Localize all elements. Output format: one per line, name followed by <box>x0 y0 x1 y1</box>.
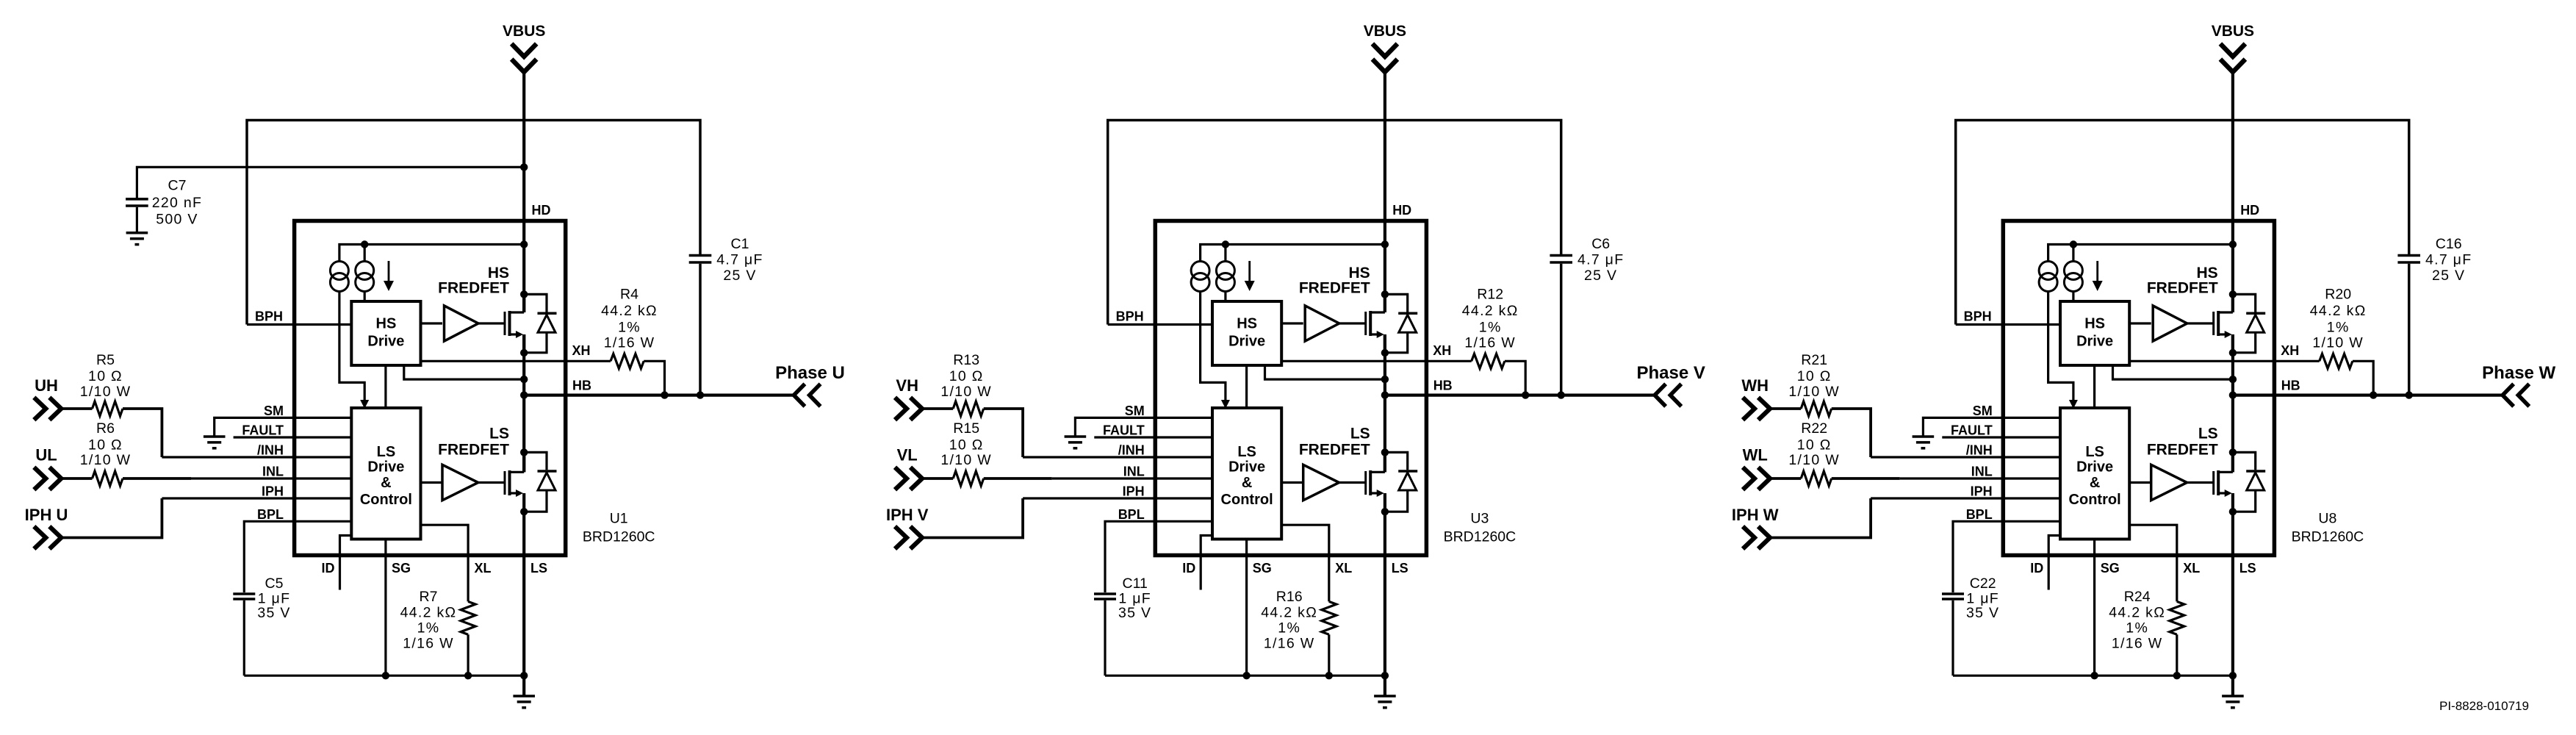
wire BPH net (phase W) <box>1956 323 2060 326</box>
svg-text:FREDFET: FREDFET <box>2147 280 2218 297</box>
block LS Drive &amp; Control (phase U) <box>351 408 420 539</box>
svg-text:ID: ID <box>2030 561 2043 576</box>
wire R22 to INL pin (phase W) <box>1832 477 1900 480</box>
node junction R20 to HB (phase W) <box>2370 391 2377 398</box>
node junction HS FREDFET source (phase U) <box>520 349 528 356</box>
wire LS Drive output to buffer (phase V) <box>1281 481 1303 484</box>
IC U8 BRD1260C outline (phase W) <box>2003 221 2274 556</box>
wire ID stub (phase U) <box>340 536 352 590</box>
ground on SM pin (phase W) <box>1913 435 1935 438</box>
wire SG pin to bottom rail (phase W) <box>2093 539 2095 676</box>
wire XL pin from LS Drive (phase W) <box>2129 525 2177 601</box>
svg-text:SM: SM <box>1973 404 1993 418</box>
node junction XL (phase V) <box>1325 672 1333 679</box>
node junction LS ground (phase W) <box>2229 672 2237 679</box>
svg-text:IPH W: IPH W <box>1732 506 1779 524</box>
svg-text:R7: R7 <box>420 589 438 605</box>
node junction R12 to HB (phase V) <box>1522 391 1529 398</box>
svg-text:LS: LS <box>2239 561 2256 576</box>
block HS Drive (phase W) <box>2060 301 2129 365</box>
node junction HD rail (phase U) <box>520 240 528 248</box>
wire C7 to ground (phase U) <box>136 207 138 232</box>
connector IPH U double chevron <box>34 526 46 549</box>
svg-text:VBUS: VBUS <box>2212 23 2254 40</box>
wire LS Drive output to buffer (phase W) <box>2129 481 2151 484</box>
svg-text:XH: XH <box>572 343 591 358</box>
wire current source 1 / BPH leg down to LS Drive supply (phase W) <box>2048 292 2073 401</box>
svg-text:10 Ω: 10 Ω <box>949 437 984 453</box>
wire ID stub (phase V) <box>1201 536 1212 590</box>
svg-text:1/16 W: 1/16 W <box>1264 636 1315 652</box>
buffer amplifier LS gate driver (phase W) <box>2151 465 2187 500</box>
capacitor C16 (phase W) <box>2397 254 2420 257</box>
wire HS Drive output to buffer (phase V) <box>1281 322 1303 324</box>
svg-text:UL: UL <box>35 446 57 465</box>
wire WH to resistor R21 (phase W) <box>1770 407 1801 410</box>
connector IPH W double chevron <box>1743 526 1755 549</box>
wire switch node rail (phase U) <box>522 334 525 472</box>
svg-text:10 Ω: 10 Ω <box>1797 437 1832 453</box>
wire buffer to LS FREDFET gate (phase V) <box>1339 481 1366 484</box>
connector Phase V double chevron <box>1655 384 1666 406</box>
svg-text:R12: R12 <box>1477 287 1503 303</box>
wire buffer to LS FREDFET gate (phase W) <box>2187 481 2214 484</box>
node junction LS FREDFET source (phase W) <box>2229 508 2237 515</box>
wire /INH net from R13 (phase V) <box>1023 456 1212 458</box>
current source 2 (HS drive supply) (phase W) <box>2064 262 2082 280</box>
resistor R13 (phase V) <box>953 401 984 416</box>
svg-text:BPH: BPH <box>255 309 283 324</box>
current source 1 (bootstrap charge) (phase U) <box>330 262 348 280</box>
block HS Drive (phase U) <box>351 301 420 365</box>
wire R6 to INL pin (phase U) <box>123 477 191 480</box>
wire top bootstrap loop: left leg to BPH, top rail, right leg to C16 (phase W) <box>1956 121 2409 325</box>
svg-text:25 V: 25 V <box>1584 268 1617 284</box>
svg-text:R15: R15 <box>953 420 979 437</box>
svg-text:C6: C6 <box>1591 236 1610 252</box>
svg-text:1/10 W: 1/10 W <box>2312 335 2364 351</box>
node junction LS ground (phase U) <box>520 672 528 679</box>
wire R5 to /INH pin (phase U) <box>123 409 162 457</box>
svg-text:HS: HS <box>2084 316 2105 332</box>
wire XH net from HS Drive to resistor R4 (phase U) <box>421 360 611 362</box>
block HS Drive (phase V) <box>1212 301 1281 365</box>
svg-text:XH: XH <box>2281 343 2299 358</box>
svg-text:VL: VL <box>897 446 918 465</box>
wire IPH U to IPH pin (phase U) <box>61 498 162 538</box>
resistor R5 (phase U) <box>93 401 123 416</box>
connector WL double chevron <box>1743 467 1755 490</box>
svg-text:Drive: Drive <box>2076 334 2113 350</box>
resistor R12 (phase V) <box>1472 354 1505 368</box>
diode HS FREDFET body diode (phase U) <box>524 294 547 312</box>
svg-text:35 V: 35 V <box>257 605 290 621</box>
svg-text:25 V: 25 V <box>2432 268 2465 284</box>
wire XL pin from LS Drive (phase U) <box>421 525 469 601</box>
svg-text:UH: UH <box>35 376 58 395</box>
svg-text:LS: LS <box>2198 426 2218 442</box>
node junction XL (phase W) <box>2173 672 2181 679</box>
svg-text:IPH U: IPH U <box>25 506 68 524</box>
svg-text:1%: 1% <box>2126 620 2148 637</box>
svg-text:Control: Control <box>1221 492 1273 508</box>
node junction source sense (phase V) <box>1381 376 1389 383</box>
svg-text:BRD1260C: BRD1260C <box>1444 529 1517 545</box>
ground main (phase V) <box>1374 695 1396 698</box>
svg-text:44.2 kΩ: 44.2 kΩ <box>1462 303 1519 319</box>
node junction LS ground (phase V) <box>1381 672 1389 679</box>
svg-text:1/10 W: 1/10 W <box>940 452 992 468</box>
wire current source 2 stub (phase U) <box>364 245 366 262</box>
svg-text:R13: R13 <box>953 352 979 368</box>
svg-text:1%: 1% <box>1479 320 1502 336</box>
svg-text:4.7 μF: 4.7 μF <box>2425 252 2472 268</box>
current source 2 (HS drive supply) (phase V) <box>1216 262 1234 280</box>
svg-text:IPH: IPH <box>262 484 284 499</box>
svg-text:BPH: BPH <box>1116 309 1144 324</box>
svg-text:1%: 1% <box>417 620 440 637</box>
svg-text:1%: 1% <box>618 320 641 336</box>
connector UH double chevron <box>34 398 46 420</box>
svg-text:LS: LS <box>377 444 396 460</box>
wire C5 to bottom rail (phase U) <box>243 600 245 675</box>
svg-text:1/16 W: 1/16 W <box>2112 636 2163 652</box>
svg-text:HS: HS <box>1237 316 1257 332</box>
connector Phase U double chevron <box>794 384 805 406</box>
svg-text:XL: XL <box>475 561 492 576</box>
svg-text:R22: R22 <box>1801 420 1827 437</box>
wire C11 to bottom rail (phase V) <box>1104 600 1106 675</box>
node junction current source 2 tap (phase U) <box>361 240 368 248</box>
node junction HD rail (phase V) <box>1381 240 1389 248</box>
node junction LS FREDFET drain (phase V) <box>1381 448 1389 456</box>
resistor R15 (phase V) <box>953 471 984 486</box>
wire UH to resistor R5 (phase U) <box>61 407 92 410</box>
svg-text:/INH: /INH <box>257 443 284 458</box>
wire FAULT stub (phase V) <box>1094 436 1212 438</box>
svg-text:1%: 1% <box>2327 320 2350 336</box>
resistor R20 (phase W) <box>2320 354 2353 368</box>
wire VBUS stem down to HS FREDFET drain (phase V) <box>1384 72 1386 313</box>
svg-text:4.7 μF: 4.7 μF <box>1577 252 1624 268</box>
wire SM net with ground (phase W) <box>1923 417 2060 437</box>
node junction C16 to HB (phase W) <box>2406 391 2413 398</box>
svg-text:FAULT: FAULT <box>242 423 284 438</box>
svg-text:1/16 W: 1/16 W <box>1464 335 1516 351</box>
resistor R21 (phase W) <box>1801 401 1832 416</box>
IC U1 BRD1260C outline (phase U) <box>295 221 566 556</box>
node junction HD rail (phase W) <box>2229 240 2237 248</box>
buffer amplifier HS gate driver (phase W) <box>2153 306 2187 341</box>
wire HS Drive to LS Drive link (phase V) <box>1245 365 1248 408</box>
node junction R4 to HB (phase U) <box>661 391 668 398</box>
block LS Drive &amp; Control (phase W) <box>2060 408 2129 539</box>
wire internal HD rail to current sources (phase V) <box>1201 245 1385 262</box>
resistor R16 (phase V) <box>1322 601 1336 634</box>
svg-text:BPH: BPH <box>1964 309 1992 324</box>
svg-text:1/10 W: 1/10 W <box>80 452 132 468</box>
wire current source 2 to HS Drive box (phase W) <box>2072 292 2074 302</box>
resistor R7 (phase U) <box>461 601 475 634</box>
svg-text:R20: R20 <box>2325 287 2351 303</box>
svg-text:HD: HD <box>2240 203 2259 218</box>
ground on SM pin (phase V) <box>1065 435 1087 438</box>
arrow supply into LS Drive & Control (phase V) <box>1221 400 1230 409</box>
node junction HS FREDFET source (phase W) <box>2229 349 2237 356</box>
connector Phase W double chevron <box>2503 384 2514 406</box>
svg-text:FREDFET: FREDFET <box>438 442 509 459</box>
svg-text:FREDFET: FREDFET <box>2147 442 2218 459</box>
ground main (phase U) <box>513 695 535 698</box>
wire internal HD rail to current sources (phase W) <box>2048 245 2233 262</box>
wire R24 to bottom rail (phase W) <box>2176 634 2178 675</box>
svg-text:LS: LS <box>489 426 509 442</box>
wire buffer to HS FREDFET gate (phase W) <box>2187 322 2214 324</box>
capacitor C1 (phase U) <box>689 254 712 257</box>
node junction HS FREDFET drain (phase V) <box>1381 290 1389 298</box>
wire BPL net with C22 branch (phase W) <box>1953 521 2060 592</box>
wire HB net to Phase output (phase U) <box>524 393 794 396</box>
capacitor C6 branch wire upper (phase V) <box>1560 264 1563 395</box>
svg-text:SG: SG <box>2101 561 2120 576</box>
svg-text:IPH: IPH <box>1971 484 1993 499</box>
node junction current source 2 tap (phase W) <box>2070 240 2077 248</box>
svg-text:INL: INL <box>262 465 284 479</box>
svg-text:LS: LS <box>530 561 547 576</box>
node junction C1 to HB (phase U) <box>697 391 704 398</box>
node junction HB tap (phase V) <box>1381 391 1389 398</box>
transistor LS FREDFET (phase W) <box>2212 471 2215 495</box>
transistor HS FREDFET (phase U) <box>504 312 506 335</box>
arrow current direction into HS Drive (phase U) <box>388 261 390 282</box>
svg-text:FAULT: FAULT <box>1103 423 1145 438</box>
svg-text:LS: LS <box>2085 444 2104 460</box>
svg-text:44.2 kΩ: 44.2 kΩ <box>1261 605 1317 621</box>
svg-text:PI-8828-010719: PI-8828-010719 <box>2439 699 2529 713</box>
arrow supply into LS Drive & Control (phase U) <box>360 400 369 409</box>
svg-text:500 V: 500 V <box>156 212 198 228</box>
svg-text:4.7 μF: 4.7 μF <box>716 252 763 268</box>
svg-text:1/10 W: 1/10 W <box>80 384 132 400</box>
power symbol VBUS double chevron (phase V) <box>1372 44 1397 57</box>
wire IPH W to IPH pin (phase W) <box>1770 498 1871 538</box>
wire /INH net from R21 (phase W) <box>1871 456 2060 458</box>
wire top bootstrap loop: left leg to BPH, top rail, right leg to C1 (phase U) <box>247 121 700 325</box>
buffer amplifier HS gate driver (phase V) <box>1305 306 1339 341</box>
wire LS Drive output to buffer (phase U) <box>421 481 443 484</box>
arrow current direction into HS Drive (phase W) <box>2096 261 2098 282</box>
transistor LS FREDFET (phase V) <box>1364 471 1367 495</box>
wire ID stub (phase W) <box>2048 536 2060 590</box>
diode LS FREDFET body diode (phase U) <box>524 452 547 470</box>
svg-text:INL: INL <box>1971 465 1993 479</box>
wire BPH net (phase U) <box>247 323 351 326</box>
svg-text:1/10 W: 1/10 W <box>940 384 992 400</box>
ground below C7 <box>126 232 148 234</box>
wire HS Drive to LS Drive link (phase U) <box>384 365 386 408</box>
wire R16 to bottom rail (phase V) <box>1328 634 1330 675</box>
wire FAULT stub (phase W) <box>1942 436 2060 438</box>
wire R20 to HB node (phase W) <box>2353 361 2373 395</box>
node junction XL (phase U) <box>464 672 472 679</box>
svg-text:Drive: Drive <box>367 459 404 476</box>
svg-text:C22: C22 <box>1970 576 1996 592</box>
node junction HS FREDFET drain (phase W) <box>2229 290 2237 298</box>
node junction source sense (phase U) <box>520 376 528 383</box>
diode LS FREDFET body diode (phase W) <box>2233 452 2256 470</box>
node junction HB tap (phase U) <box>520 391 528 398</box>
wire XL pin from LS Drive (phase V) <box>1281 525 1329 601</box>
buffer amplifier LS gate driver (phase V) <box>1303 465 1339 500</box>
svg-text:U8: U8 <box>2318 511 2336 527</box>
wire VL to resistor R15 (phase V) <box>922 477 953 480</box>
svg-text:R6: R6 <box>96 420 115 437</box>
wire switch node rail (phase V) <box>1384 334 1386 472</box>
transistor LS FREDFET (phase U) <box>504 471 506 495</box>
power symbol VBUS double chevron (phase W) <box>2220 44 2245 57</box>
power symbol VBUS double chevron (phase U) <box>511 44 536 57</box>
wire internal HD rail to current sources (phase U) <box>339 245 524 262</box>
svg-text:IPH: IPH <box>1123 484 1145 499</box>
wire top bootstrap loop: left leg to BPH, top rail, right leg to C6 (phase V) <box>1108 121 1561 325</box>
svg-text:44.2 kΩ: 44.2 kΩ <box>2109 605 2165 621</box>
svg-text:ID: ID <box>322 561 335 576</box>
wire R12 to HB node (phase V) <box>1505 361 1525 395</box>
wire R7 to bottom rail (phase U) <box>467 634 469 675</box>
wire /INH net from R5 (phase U) <box>162 456 351 458</box>
wire C22 to bottom rail (phase W) <box>1951 600 1954 675</box>
svg-text:VBUS: VBUS <box>1364 23 1406 40</box>
node junction HS FREDFET drain (phase U) <box>520 290 528 298</box>
svg-text:10 Ω: 10 Ω <box>949 368 984 384</box>
svg-text:XH: XH <box>1433 343 1451 358</box>
svg-text:Control: Control <box>360 492 412 508</box>
svg-text:1/16 W: 1/16 W <box>403 636 454 652</box>
ground main (phase W) <box>2222 695 2244 698</box>
wire HS Drive output to buffer (phase W) <box>2129 322 2151 324</box>
svg-text:Phase U: Phase U <box>775 363 845 383</box>
wire R13 to /INH pin (phase V) <box>984 409 1023 457</box>
wire XH net from HS Drive to resistor R20 (phase W) <box>2129 360 2320 362</box>
svg-text:&: & <box>381 475 391 491</box>
connector WH double chevron <box>1743 398 1755 420</box>
svg-text:44.2 kΩ: 44.2 kΩ <box>601 303 658 319</box>
wire bottom common rail (phase W) <box>1953 675 2233 677</box>
resistor R6 (phase U) <box>93 471 123 486</box>
capacitor C5 (phase U) <box>233 592 255 595</box>
svg-text:SG: SG <box>392 561 411 576</box>
wire HS Drive output to buffer (phase U) <box>421 322 443 324</box>
svg-text:HB: HB <box>2281 379 2300 393</box>
wire bottom common rail (phase U) <box>244 675 524 677</box>
svg-text:FREDFET: FREDFET <box>438 280 509 297</box>
wire SG pin to bottom rail (phase U) <box>384 539 386 676</box>
capacitor C16 branch wire upper (phase W) <box>2408 264 2411 395</box>
svg-text:&: & <box>1242 475 1252 491</box>
svg-text:LS: LS <box>1392 561 1408 576</box>
connector VL double chevron <box>895 467 907 490</box>
wire FAULT stub (phase U) <box>234 436 352 438</box>
wire R15 to INL pin (phase V) <box>984 477 1052 480</box>
svg-text:ID: ID <box>1182 561 1195 576</box>
wire HB net to Phase output (phase V) <box>1385 393 1655 396</box>
buffer amplifier HS gate driver (phase U) <box>445 306 479 341</box>
svg-text:INL: INL <box>1123 465 1145 479</box>
node junction current source 2 tap (phase V) <box>1222 240 1229 248</box>
svg-text:1/10 W: 1/10 W <box>1788 384 1840 400</box>
node junction source sense (phase W) <box>2229 376 2237 383</box>
svg-text:1/10 W: 1/10 W <box>1788 452 1840 468</box>
wire HB net to Phase output (phase W) <box>2233 393 2503 396</box>
svg-text:HS: HS <box>376 316 397 332</box>
wire current source 2 to HS Drive box (phase V) <box>1224 292 1226 302</box>
svg-text:SM: SM <box>1125 404 1145 418</box>
node junction LS FREDFET drain (phase W) <box>2229 448 2237 456</box>
wire HS Drive source reference to switch node (phase W) <box>2113 365 2233 379</box>
wire HS Drive source reference to switch node (phase U) <box>404 365 524 379</box>
svg-text:BRD1260C: BRD1260C <box>583 529 655 545</box>
diode HS FREDFET body diode (phase V) <box>1385 294 1408 312</box>
arrow supply into LS Drive & Control (phase W) <box>2069 400 2078 409</box>
svg-text:10 Ω: 10 Ω <box>88 368 123 384</box>
current source 1 (bootstrap charge) (phase W) <box>2039 262 2057 280</box>
svg-text:220 nF: 220 nF <box>152 195 203 211</box>
node junction HS FREDFET source (phase V) <box>1381 349 1389 356</box>
node junction HB tap (phase W) <box>2229 391 2237 398</box>
svg-text:35 V: 35 V <box>1118 605 1151 621</box>
svg-text:C11: C11 <box>1123 576 1148 592</box>
wire current source 2 to HS Drive box (phase U) <box>364 292 366 302</box>
connector UL double chevron <box>34 467 46 490</box>
svg-text:R24: R24 <box>2124 589 2151 605</box>
svg-text:10 Ω: 10 Ω <box>1797 368 1832 384</box>
svg-text:Control: Control <box>2069 492 2121 508</box>
wire WL to resistor R22 (phase W) <box>1770 477 1801 480</box>
wire SM net with ground (phase V) <box>1075 417 1212 437</box>
wire current source 2 stub (phase V) <box>1224 245 1226 262</box>
resistor R24 (phase W) <box>2170 601 2184 634</box>
capacitor C6 (phase V) <box>1550 254 1572 257</box>
wire switch node rail (phase W) <box>2231 334 2234 472</box>
svg-text:IPH V: IPH V <box>886 506 929 524</box>
wire buffer to HS FREDFET gate (phase V) <box>1339 322 1366 324</box>
svg-text:BRD1260C: BRD1260C <box>2292 529 2364 545</box>
wire R21 to /INH pin (phase W) <box>1832 409 1871 457</box>
svg-text:BPL: BPL <box>1118 507 1145 522</box>
diode HS FREDFET body diode (phase W) <box>2233 294 2256 312</box>
current source 1 (bootstrap charge) (phase V) <box>1191 262 1209 280</box>
resistor R22 (phase W) <box>1801 471 1832 486</box>
wire VBUS stem down to HS FREDFET drain (phase W) <box>2231 72 2234 313</box>
wire HS Drive to LS Drive link (phase W) <box>2093 365 2095 408</box>
svg-text:SG: SG <box>1253 561 1272 576</box>
svg-text:44.2 kΩ: 44.2 kΩ <box>2310 303 2367 319</box>
svg-text:10 Ω: 10 Ω <box>88 437 123 453</box>
svg-text:Drive: Drive <box>1228 334 1265 350</box>
svg-text:U1: U1 <box>610 511 628 527</box>
current source 2 (HS drive supply) (phase U) <box>356 262 374 280</box>
wire current source 1 / BPH leg down to LS Drive supply (phase V) <box>1201 292 1226 401</box>
wire buffer to LS FREDFET gate (phase U) <box>478 481 505 484</box>
wire buffer to HS FREDFET gate (phase U) <box>478 322 505 324</box>
connector VH double chevron <box>895 398 907 420</box>
wire VH to resistor R13 (phase V) <box>922 407 953 410</box>
wire BPH net (phase V) <box>1108 323 1212 326</box>
svg-text:LS: LS <box>1237 444 1256 460</box>
node junction LS FREDFET source (phase U) <box>520 508 528 515</box>
svg-text:FAULT: FAULT <box>1951 423 1993 438</box>
svg-text:BPL: BPL <box>257 507 284 522</box>
